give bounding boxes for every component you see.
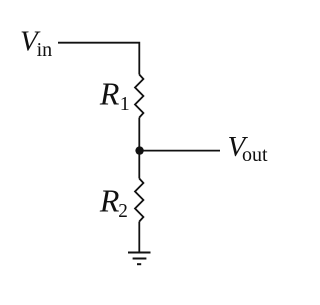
svg-text:out: out	[242, 144, 268, 166]
svg-text:1: 1	[120, 93, 130, 115]
svg-text:2: 2	[118, 200, 128, 222]
svg-text:R: R	[99, 183, 120, 219]
svg-text:R: R	[99, 76, 120, 112]
svg-text:in: in	[37, 39, 53, 61]
